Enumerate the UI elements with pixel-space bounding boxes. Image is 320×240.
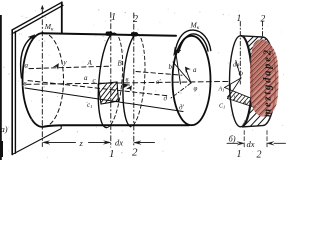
svg-text:а: а xyxy=(84,74,88,82)
svg-text:1: 1 xyxy=(109,148,115,160)
svg-text:φ: φ xyxy=(194,85,198,93)
svg-text:б): б) xyxy=(229,134,236,144)
svg-text:2: 2 xyxy=(257,150,262,161)
svg-text:С1: С1 xyxy=(219,104,225,110)
svg-text:в': в' xyxy=(156,78,161,86)
svg-text:а: а xyxy=(25,62,29,70)
svg-text:2: 2 xyxy=(132,147,138,159)
svg-text:b: b xyxy=(169,63,173,71)
svg-text:1: 1 xyxy=(237,149,242,160)
svg-text:dφ: dφ xyxy=(233,63,240,69)
svg-text:В: В xyxy=(118,60,123,68)
svg-text:д: д xyxy=(164,95,168,103)
svg-text:dx: dx xyxy=(115,138,123,148)
svg-text:O: O xyxy=(239,72,244,78)
svg-text:а): а) xyxy=(1,124,8,134)
svg-text:1: 1 xyxy=(111,12,116,23)
svg-text:Д: Д xyxy=(242,120,247,126)
svg-text:dx: dx xyxy=(247,139,255,149)
svg-text:А1: А1 xyxy=(218,87,225,93)
svg-text:2: 2 xyxy=(133,14,138,25)
svg-text:в: в xyxy=(244,101,247,107)
svg-text:а: а xyxy=(193,66,197,74)
svg-text:д': д' xyxy=(179,104,185,112)
svg-text:в: в xyxy=(126,76,129,84)
svg-text:z: z xyxy=(79,138,84,148)
svg-text:meztgdape2: meztgdape2 xyxy=(263,48,274,117)
svg-text:в: в xyxy=(24,80,27,88)
svg-text:1: 1 xyxy=(237,14,242,24)
svg-text:2: 2 xyxy=(261,15,266,25)
svg-text:А: А xyxy=(87,59,93,67)
